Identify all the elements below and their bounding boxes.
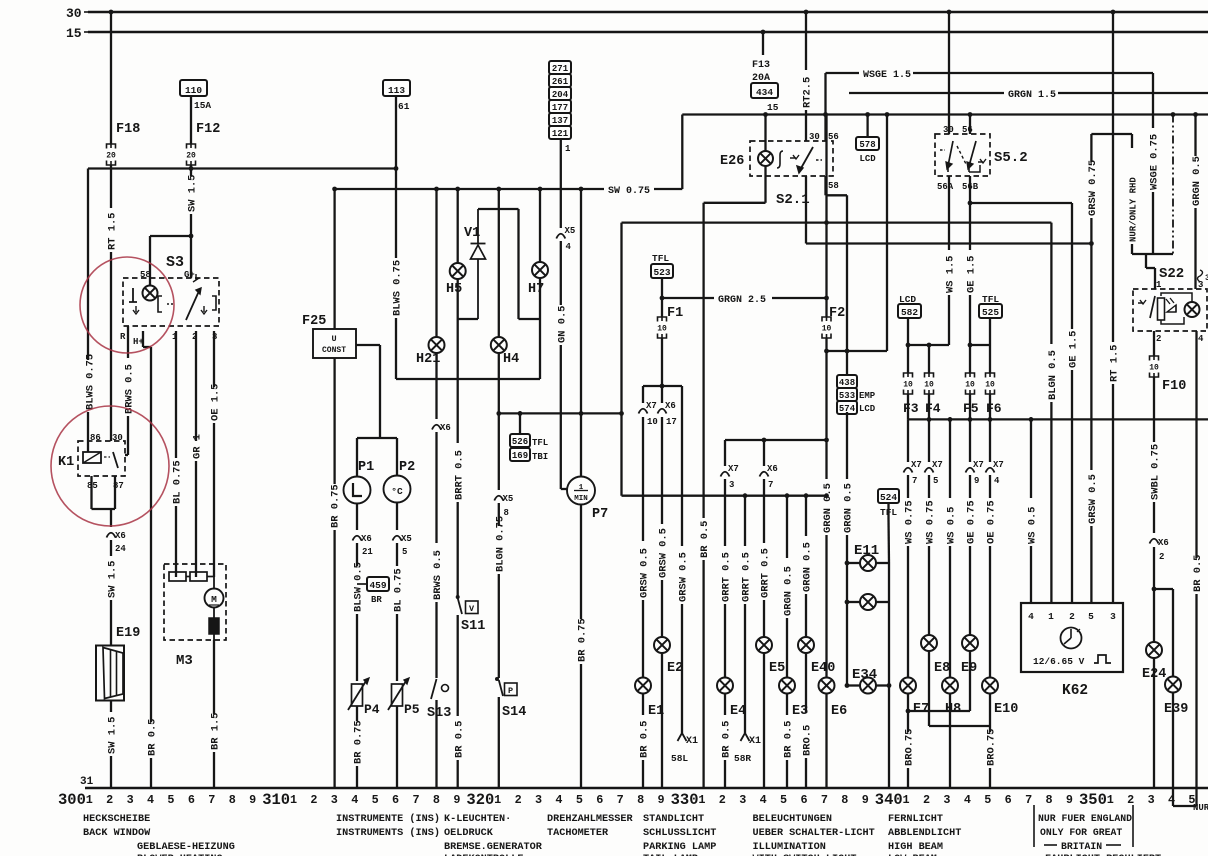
bus 15 (ignition+) xyxy=(66,26,1208,41)
svg-text:K1: K1 xyxy=(58,455,74,470)
parking lamp E2 xyxy=(654,637,683,676)
svg-text:S5.2: S5.2 xyxy=(994,150,1028,166)
svg-text:S3: S3 xyxy=(166,254,184,271)
svg-text:M: M xyxy=(211,594,217,605)
svg-text:9: 9 xyxy=(1066,793,1073,807)
wire RT 1.5 xyxy=(107,165,119,441)
grid coordinate ruler xyxy=(58,791,1208,809)
svg-text:4: 4 xyxy=(566,242,572,252)
svg-text:CONST: CONST xyxy=(322,346,346,355)
svg-text:X7: X7 xyxy=(646,401,657,411)
connector codes 526 TFL / 169 TBI xyxy=(510,413,548,462)
connector code 110 / 15A xyxy=(180,80,211,144)
wire SW 1.5 (E19 to ground) xyxy=(107,701,119,788)
svg-text:58L: 58L xyxy=(671,753,688,764)
wire GRRT 0.5 (to E4) xyxy=(721,440,739,678)
svg-text:S22: S22 xyxy=(1159,266,1184,282)
svg-text:BR 1.5: BR 1.5 xyxy=(210,713,222,750)
svg-text:1: 1 xyxy=(1048,611,1054,622)
wire GRSW top bracket xyxy=(1091,133,1132,135)
svg-text:BL 0.75: BL 0.75 xyxy=(172,460,184,504)
svg-text:F6: F6 xyxy=(986,401,1002,416)
svg-text:320: 320 xyxy=(466,791,494,809)
diode V1 xyxy=(464,209,486,319)
svg-text:56: 56 xyxy=(828,132,839,142)
svg-text:H8: H8 xyxy=(945,702,961,717)
svg-text:2: 2 xyxy=(1069,611,1075,622)
K62 square wave symbol xyxy=(1094,655,1111,663)
headlamp E8 xyxy=(921,635,950,676)
K1 terminal labels 86 30 85 87 xyxy=(87,433,124,491)
relay S5.2 xyxy=(935,134,1028,176)
svg-text:2: 2 xyxy=(515,793,522,807)
svg-text:4: 4 xyxy=(1168,793,1175,807)
switch S13 xyxy=(427,679,451,721)
svg-text:58: 58 xyxy=(828,181,839,191)
connector code LCD 582 xyxy=(898,294,921,345)
svg-text:4: 4 xyxy=(994,476,1000,486)
lamp E40 xyxy=(798,637,835,676)
svg-text:GRSW 0.75: GRSW 0.75 xyxy=(1087,160,1099,216)
svg-text:E4: E4 xyxy=(730,704,746,719)
svg-text:TFL: TFL xyxy=(532,438,548,448)
svg-text:10: 10 xyxy=(903,381,913,390)
svg-text:261: 261 xyxy=(552,77,569,87)
connector X1 / 58L xyxy=(671,733,698,764)
connector codes 438 / 533 EMP / 574 LCD xyxy=(837,375,876,414)
wire E24 ground xyxy=(1153,658,1155,788)
svg-text:BLGN 0.75: BLGN 0.75 xyxy=(494,516,506,572)
svg-text:BR 0.5: BR 0.5 xyxy=(1192,555,1204,592)
svg-text:10: 10 xyxy=(965,381,975,390)
svg-text:P2: P2 xyxy=(399,460,415,475)
svg-text:582: 582 xyxy=(901,307,918,318)
svg-text:E40: E40 xyxy=(811,661,835,676)
svg-text:177: 177 xyxy=(552,103,568,113)
svg-text:ONLY FOR GREAT: ONLY FOR GREAT xyxy=(1040,827,1122,838)
svg-text:4: 4 xyxy=(351,793,358,807)
svg-text:10: 10 xyxy=(985,381,995,390)
svg-text:10: 10 xyxy=(822,325,832,334)
wire BR 1.5 (M3 to ground) xyxy=(210,640,222,788)
sender P5 xyxy=(388,678,420,717)
svg-text:SW 1.5: SW 1.5 xyxy=(107,717,119,754)
connector X5 pin 5 (P2) xyxy=(393,503,412,558)
svg-text:GN 0.5: GN 0.5 xyxy=(556,306,568,343)
svg-text:8: 8 xyxy=(1045,793,1052,807)
svg-text:BLWS 0.75: BLWS 0.75 xyxy=(392,260,404,316)
svg-text:523: 523 xyxy=(653,267,670,278)
wire GRGN 0.5 (to S22 pin 3) xyxy=(1191,115,1203,290)
caption standlicht xyxy=(643,814,716,853)
wire BLWS 0.75 (113 feed) xyxy=(392,169,404,380)
S5.2 internals xyxy=(940,141,986,172)
S5.2 terminal labels xyxy=(937,125,979,192)
svg-text:X6: X6 xyxy=(665,401,676,411)
svg-text:P5: P5 xyxy=(404,702,420,717)
lamp cluster E11 xyxy=(847,543,889,610)
svg-text:5: 5 xyxy=(576,793,583,807)
svg-text:X6: X6 xyxy=(767,464,778,474)
wire BL 0.75 (P2) xyxy=(393,543,405,681)
wire GE 1.5 (to K62 pin 2) xyxy=(970,203,1080,603)
wire F5/F6 feed bracket xyxy=(968,343,990,373)
svg-text:1: 1 xyxy=(494,793,501,807)
wire SW 0.75 feed corner xyxy=(332,187,337,329)
svg-text:7: 7 xyxy=(208,793,215,807)
wire GRRT 0.5 (to E5) xyxy=(760,440,778,637)
wire GRSW 0.5 (to X1 58L) xyxy=(678,403,690,733)
svg-text:2: 2 xyxy=(923,793,930,807)
svg-text:204: 204 xyxy=(552,90,569,100)
svg-text:8: 8 xyxy=(229,793,236,807)
relay K1 xyxy=(58,441,125,476)
svg-text:5: 5 xyxy=(372,793,379,807)
switch S22 xyxy=(1133,266,1207,331)
svg-text:BR 0.5: BR 0.5 xyxy=(721,721,733,758)
svg-text:ABBLENDLICHT: ABBLENDLICHT xyxy=(888,828,961,839)
svg-text:525: 525 xyxy=(982,307,999,318)
connector code 524 TFL xyxy=(878,489,899,563)
wire GE 1.5 (56B to F5/F6) xyxy=(966,176,978,345)
svg-text:5: 5 xyxy=(402,547,407,557)
connector X6 pin 24 xyxy=(107,531,127,554)
fuse F1 xyxy=(657,298,683,338)
svg-text:S14: S14 xyxy=(502,705,526,720)
svg-text:S11: S11 xyxy=(461,619,485,634)
svg-text:OELDRUCK: OELDRUCK xyxy=(444,828,494,839)
svg-text:°C: °C xyxy=(391,486,403,497)
svg-text:MIN: MIN xyxy=(574,495,588,503)
svg-text:12/6.65 V: 12/6.65 V xyxy=(1033,656,1085,667)
wire 61-feed horizontal xyxy=(88,166,398,171)
svg-text:RT 1.5: RT 1.5 xyxy=(1109,345,1121,382)
svg-text:TBI: TBI xyxy=(532,452,548,462)
svg-text:5: 5 xyxy=(1188,793,1195,807)
svg-text:F3: F3 xyxy=(903,401,919,416)
svg-text:F12: F12 xyxy=(196,122,220,137)
svg-text:P7: P7 xyxy=(592,507,608,522)
svg-text:BACK WINDOW: BACK WINDOW xyxy=(83,828,151,839)
svg-text:BR 0.5: BR 0.5 xyxy=(147,719,159,756)
svg-text:GRSW 0.5: GRSW 0.5 xyxy=(678,552,690,602)
caption clipped bottom row xyxy=(137,854,1161,861)
svg-text:F1: F1 xyxy=(667,306,683,321)
svg-text:61: 61 xyxy=(398,101,410,112)
wire BLWS 0.75 (to K1 term 86) xyxy=(85,169,97,453)
wire E7/E9 ground bracket xyxy=(906,651,970,713)
svg-text:56A: 56A xyxy=(937,182,954,192)
blower motor unit M3 xyxy=(164,564,226,669)
lamp E3 xyxy=(779,678,808,720)
svg-text:F18: F18 xyxy=(116,122,140,137)
bus 31 (ground) xyxy=(80,776,1208,788)
caption k-leuchten xyxy=(444,814,543,853)
svg-text:SW 1.5: SW 1.5 xyxy=(107,561,119,598)
svg-text:HECKSCHEIBE: HECKSCHEIBE xyxy=(83,814,150,825)
svg-text:FERNLICHT: FERNLICHT xyxy=(888,814,943,825)
M3 thermal limiter xyxy=(209,607,219,640)
K62 clock symbol xyxy=(1061,628,1082,649)
wire tach feed rail xyxy=(499,411,622,416)
wire RT2.5 (to S2.1 term 30) xyxy=(802,10,814,141)
wire OE 1.5 (S3-3) xyxy=(210,331,222,577)
connector X1 / 58R xyxy=(734,733,761,764)
svg-text:X5: X5 xyxy=(565,226,576,236)
wire E11/E34 ground riser xyxy=(887,602,892,788)
fuse F4 xyxy=(924,373,941,416)
fuel gauge P1 xyxy=(344,460,375,504)
svg-text:BR 0.5: BR 0.5 xyxy=(699,521,711,558)
wire F1 distribution bracket xyxy=(643,386,682,403)
svg-text:BR: BR xyxy=(371,595,382,605)
wire lamp rail to E4/E5 xyxy=(725,438,827,443)
S2.1 internals xyxy=(777,147,822,173)
svg-text:BELEUCHTUNGEN: BELEUCHTUNGEN xyxy=(753,814,832,825)
wire SW 0.75 main feed xyxy=(335,115,683,198)
wire E26 ground elbow to BR 0.5 xyxy=(704,166,766,203)
svg-text:INSTRUMENTS (INS): INSTRUMENTS (INS) xyxy=(336,827,440,839)
svg-text:21: 21 xyxy=(362,547,373,557)
svg-text:3: 3 xyxy=(535,793,542,807)
svg-text:9: 9 xyxy=(249,793,256,807)
svg-text:GEBLAESE-HEIZUNG: GEBLAESE-HEIZUNG xyxy=(137,842,235,853)
wire NUR/ONLY RHD branch xyxy=(1129,134,1139,254)
connector X6 pin 17 xyxy=(658,386,677,427)
svg-text:58: 58 xyxy=(140,270,151,280)
wire SW 1.5 to S3 xyxy=(187,165,199,278)
svg-text:56: 56 xyxy=(962,125,973,135)
svg-text:350: 350 xyxy=(1079,791,1107,809)
svg-text:3: 3 xyxy=(127,793,134,807)
S2.1 terminal labels 30 56 58 xyxy=(809,132,839,191)
svg-text:GRRT 0.5: GRRT 0.5 xyxy=(741,552,753,602)
wire E5 ground xyxy=(763,653,765,788)
caption drehzahlmesser xyxy=(547,814,633,839)
wire H5-V1 bottom bracket xyxy=(458,279,478,319)
svg-text:459: 459 xyxy=(369,580,386,591)
wire F3/F4 feed bracket xyxy=(906,343,949,373)
lamp E6 xyxy=(819,678,848,720)
svg-text:10: 10 xyxy=(1149,364,1159,373)
svg-text:R: R xyxy=(120,332,126,342)
fuse F13 / code 434 / terminal 15 xyxy=(751,30,779,113)
svg-text:2: 2 xyxy=(1156,334,1161,344)
svg-text:8: 8 xyxy=(841,793,848,807)
svg-text:TFL: TFL xyxy=(652,253,669,264)
voltage stabilizer F25 xyxy=(302,314,356,358)
svg-text:533: 533 xyxy=(839,391,855,401)
svg-text:7: 7 xyxy=(912,476,917,486)
fuse F2 xyxy=(822,115,846,339)
svg-text:438: 438 xyxy=(839,378,855,388)
svg-text:E8: E8 xyxy=(934,661,950,676)
wire BRRT 0.5 (to S11) xyxy=(453,319,465,596)
wire S22 pin2 to F10 xyxy=(1153,331,1155,356)
svg-text:2: 2 xyxy=(310,793,317,807)
svg-text:GE 1.5: GE 1.5 xyxy=(966,256,978,293)
svg-text:BRWS 0.5: BRWS 0.5 xyxy=(432,550,444,600)
fog lamp E24 xyxy=(1142,642,1166,682)
svg-text:K62: K62 xyxy=(1062,683,1088,699)
S3 terminal H+ xyxy=(133,337,144,347)
svg-text:X7: X7 xyxy=(993,460,1004,470)
wire BRO.5 (E40 ground) xyxy=(802,653,814,788)
wire WS 0.5 (bus to K62 pin 4) xyxy=(1027,419,1039,603)
wire BR 0.5 (S22 pin4) xyxy=(1190,331,1204,806)
switch S3 xyxy=(123,254,219,326)
svg-text:BR 0.75: BR 0.75 xyxy=(330,484,342,528)
svg-text:524: 524 xyxy=(880,492,897,503)
svg-text:15A: 15A xyxy=(194,100,211,111)
S22 internals xyxy=(1138,293,1200,324)
svg-text:GE 0.75: GE 0.75 xyxy=(966,500,978,544)
svg-text:2: 2 xyxy=(719,793,726,807)
warning lamp H5 xyxy=(446,187,466,297)
svg-text:E19: E19 xyxy=(116,626,140,641)
connector X6 pin 2 (F10) xyxy=(1150,538,1169,562)
wire RT 1.5 (to K62 pin 3) xyxy=(1109,10,1121,603)
svg-text:P1: P1 xyxy=(358,460,374,475)
wire BR 0.5 (long ground lead) xyxy=(699,203,711,788)
svg-text:F10: F10 xyxy=(1162,379,1186,394)
svg-text:NUR FUER ENGLAND: NUR FUER ENGLAND xyxy=(1038,813,1132,824)
wire BRWS 0.5 (H21) xyxy=(432,432,444,678)
M3 motor xyxy=(205,564,224,608)
wire GRGN 1.5 xyxy=(849,90,1208,101)
svg-text:BR 0.5: BR 0.5 xyxy=(783,721,795,758)
wire node rail y114 xyxy=(682,112,1208,117)
wire BLSW 0.5 xyxy=(353,543,365,681)
svg-text:1: 1 xyxy=(698,793,705,807)
S3 indicator lamp xyxy=(143,286,158,301)
horn H8 xyxy=(942,678,961,718)
fuse F18 xyxy=(106,10,140,165)
svg-text:UEBER SCHALTER-LICHT: UEBER SCHALTER-LICHT xyxy=(753,828,875,839)
svg-text:TACHOMETER: TACHOMETER xyxy=(547,828,609,839)
parking lamp E1 xyxy=(635,678,664,720)
wire instrument minus rail xyxy=(396,378,540,380)
fuse F12 xyxy=(186,122,220,165)
switch S14 xyxy=(495,677,526,720)
fuse F5 xyxy=(963,373,979,416)
svg-text:GE 1.5: GE 1.5 xyxy=(1068,331,1080,368)
svg-text:2: 2 xyxy=(1159,552,1164,562)
svg-text:F13: F13 xyxy=(752,60,770,71)
svg-text:5: 5 xyxy=(984,793,991,807)
warning lamp H21 xyxy=(416,187,445,367)
svg-text:WSGE 0.75: WSGE 0.75 xyxy=(1149,134,1161,190)
wire dash-dot RHD divider xyxy=(1172,115,1174,255)
svg-text:GR 1: GR 1 xyxy=(192,434,204,459)
svg-text:3: 3 xyxy=(1110,611,1116,622)
wire BRO.75 (E10 ground) xyxy=(986,726,998,788)
lamp E5 xyxy=(756,637,785,676)
wire BRO.75 (E7 ground) xyxy=(904,711,916,788)
svg-text:31: 31 xyxy=(80,776,94,788)
svg-text:BREMSE.GENERATOR: BREMSE.GENERATOR xyxy=(444,842,543,853)
svg-text:1: 1 xyxy=(565,144,571,154)
connector code 578 LCD xyxy=(856,115,879,165)
wire BR 0.5 (S11 to ground) xyxy=(453,615,465,788)
connector code TFL 525 xyxy=(979,294,1002,345)
svg-text:SWBL 0.75: SWBL 0.75 xyxy=(1150,444,1162,500)
svg-text:15: 15 xyxy=(66,26,82,41)
svg-text:1: 1 xyxy=(86,793,93,807)
svg-text:30: 30 xyxy=(66,6,82,21)
svg-text:BR 0.5: BR 0.5 xyxy=(453,721,465,758)
svg-text:WS 0.5: WS 0.5 xyxy=(1027,507,1039,544)
svg-text:ILLUMINATION: ILLUMINATION xyxy=(753,842,826,853)
svg-text:17: 17 xyxy=(666,417,677,427)
svg-text:GRRT 0.5: GRRT 0.5 xyxy=(760,548,772,598)
svg-text:86: 86 xyxy=(90,433,101,443)
wire OE 0.75 (to E10) xyxy=(986,419,1004,677)
svg-text:F25: F25 xyxy=(302,314,326,329)
fuse F3 xyxy=(903,373,919,416)
svg-text:BR 0.75: BR 0.75 xyxy=(353,720,365,764)
connector code 459 BR xyxy=(357,577,389,605)
caption instrumente xyxy=(336,813,440,839)
svg-text:7: 7 xyxy=(821,793,828,807)
wire BR 0.75 (P7 to ground) xyxy=(577,505,589,789)
wire E39 down lead xyxy=(1173,693,1208,814)
M3 resistor R2 xyxy=(186,564,207,581)
wire E6 ground xyxy=(825,694,827,789)
svg-text:BLGN 0.5: BLGN 0.5 xyxy=(1047,350,1059,400)
svg-text:BRWS 0.5: BRWS 0.5 xyxy=(124,364,136,414)
caption fernlicht xyxy=(888,814,961,853)
wire BLGN 0.5 top link y222.6 xyxy=(622,221,1052,223)
connector X5 pin 4 xyxy=(556,139,575,252)
svg-text:STANDLICHT: STANDLICHT xyxy=(643,814,704,825)
svg-text:7: 7 xyxy=(768,480,773,490)
wire headlight bus y419 xyxy=(908,394,1208,422)
svg-text:X7: X7 xyxy=(973,460,984,470)
svg-text:578: 578 xyxy=(859,140,875,150)
svg-text:X5: X5 xyxy=(503,494,514,504)
svg-text:5: 5 xyxy=(167,793,174,807)
wire S2.1 term 58 to GRGN 0.5 xyxy=(826,176,848,195)
svg-text:4: 4 xyxy=(555,793,562,807)
sender P4 xyxy=(348,678,380,717)
wire BR 0.75 (P4 to ground) xyxy=(353,706,365,788)
wire S2.1 term 56 xyxy=(824,73,826,141)
svg-text:X5: X5 xyxy=(401,534,412,544)
K62 value label 12/6.65 V xyxy=(1033,656,1085,667)
svg-text:PARKING LAMP: PARKING LAMP xyxy=(643,842,716,853)
svg-text:E10: E10 xyxy=(994,702,1018,717)
svg-text:GRGN 0.5: GRGN 0.5 xyxy=(802,542,814,592)
svg-text:X1: X1 xyxy=(749,736,761,747)
S3 terminal 58 wire xyxy=(140,236,191,285)
wire WS 0.5 (to H8) xyxy=(946,419,958,677)
timer module K62 xyxy=(1021,603,1123,699)
svg-text:E2: E2 xyxy=(667,661,683,676)
warning lamp H4 xyxy=(491,187,519,367)
svg-text:20: 20 xyxy=(106,152,116,161)
K62 pin labels 4 1 2 5 3 xyxy=(1028,611,1116,622)
svg-text:SW 0.75: SW 0.75 xyxy=(608,186,650,197)
wire GRGN 0.5 continues xyxy=(843,412,855,688)
svg-text:6: 6 xyxy=(596,793,603,807)
svg-text:310: 310 xyxy=(262,791,290,809)
svg-text:6: 6 xyxy=(1005,793,1012,807)
S3 terminals 1 2 3 xyxy=(172,332,217,342)
svg-text:P: P xyxy=(508,686,513,696)
caption heckscheibe xyxy=(83,814,151,839)
svg-text:F4: F4 xyxy=(925,401,941,416)
